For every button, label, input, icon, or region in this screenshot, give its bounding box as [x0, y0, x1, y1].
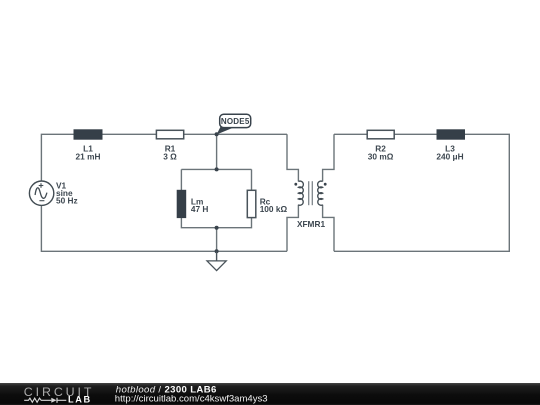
inductor L1 [74, 130, 102, 139]
XFMR1 secondary winding [318, 181, 323, 205]
CircuitLab logo [24, 385, 95, 405]
label Rc 100 kOhm [260, 196, 288, 214]
XFMR1 phase dot primary [294, 183, 297, 186]
svg-text:240 μH: 240 μH [436, 151, 463, 161]
voltage source V1 [29, 181, 53, 205]
ground [207, 251, 226, 270]
svg-text:3 Ω: 3 Ω [163, 151, 177, 161]
label R2 30 mOhm [368, 143, 394, 161]
junction dot at NODE5 [215, 132, 219, 136]
transformer XFMR1 [287, 134, 334, 251]
label L3 240 uH [436, 143, 463, 161]
inductor Lm [177, 190, 186, 217]
junction dot on ground rail [215, 249, 219, 253]
resistor R1 [156, 130, 183, 139]
wire: primary loop bottom (V1 to XFMR1 bottom left) [41, 205, 287, 251]
svg-text:50 Hz: 50 Hz [56, 195, 78, 205]
XFMR1 phase dot secondary [324, 183, 327, 186]
wire: XFMR1 right pin leads [323, 134, 334, 181]
inductor L3 [437, 130, 465, 139]
label Lm 47 H [191, 196, 209, 214]
XFMR1 primary winding [298, 181, 303, 205]
label V1 sine 50 Hz [56, 180, 78, 205]
wire: parallel bottom stem to ground rail [216, 228, 218, 252]
junction dot parallel top [215, 167, 219, 171]
XFMR1 core [308, 181, 310, 205]
svg-text:100 kΩ: 100 kΩ [260, 204, 288, 214]
wire: secondary loop [334, 134, 509, 251]
junction dot parallel bottom [215, 226, 219, 230]
wire: primary loop top (V1 to XFMR1 left pin) [41, 134, 287, 181]
svg-text:XFMR1: XFMR1 [297, 219, 326, 229]
wire: XFMR1 left pin leads [287, 134, 298, 181]
label R1 3 ohm [163, 143, 177, 161]
resistor R2 [367, 130, 394, 139]
node NODE5 flag [217, 114, 251, 134]
svg-text:http://circuitlab.com/c4kswf3a: http://circuitlab.com/c4kswf3am4ys3 [115, 394, 268, 405]
wire: parallel section frame Lm / Rc [181, 168, 251, 170]
svg-text:47 H: 47 H [191, 204, 209, 214]
svg-text:NODE5: NODE5 [221, 117, 250, 126]
resistor Rc [247, 190, 256, 217]
label L1 21 mH [76, 143, 101, 161]
svg-text:30 mΩ: 30 mΩ [368, 151, 394, 161]
svg-text:21 mH: 21 mH [76, 151, 101, 161]
wire: node5 vertical drop to parallel section [216, 134, 218, 169]
svg-text:LAB: LAB [68, 394, 92, 404]
